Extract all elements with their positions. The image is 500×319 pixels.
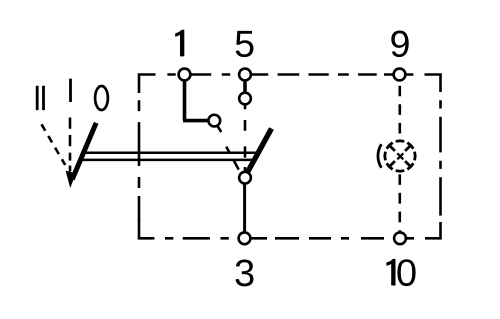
terminal 9 <box>394 69 406 81</box>
lamp L1 (illumination) <box>378 141 415 171</box>
enclosure bottom border (dash-dot) <box>139 220 441 238</box>
terminal 10 <box>394 232 406 244</box>
wire from pivot to terminal 3 <box>243 183 246 233</box>
pin label 3 <box>236 260 254 287</box>
dashed contact path (pos I) from contact 5 to pivot <box>244 104 247 172</box>
wire from terminal 1 to contact <box>183 77 210 121</box>
moving contact lever <box>247 129 272 174</box>
terminal 5 <box>239 69 251 81</box>
pin label 9 <box>391 31 408 58</box>
position I dashed lever line <box>69 118 72 172</box>
pin label 1 <box>175 30 184 57</box>
terminal 3 <box>239 232 251 244</box>
enclosure right border (dash-dot) <box>439 100 442 215</box>
wire stub from terminal 5 <box>243 77 247 93</box>
dashed contact path (pos II) from contact 1 to pivot <box>217 125 239 170</box>
position II dashed lever line <box>42 124 66 165</box>
position label 0 <box>95 86 108 110</box>
contact circle at terminal 1 branch <box>208 115 220 127</box>
mechanical linkage upper line <box>83 152 256 155</box>
dashed wire lamp to terminal 10 <box>398 174 401 233</box>
position label II <box>37 86 43 110</box>
position label I <box>69 79 72 102</box>
mechanical linkage lower line <box>80 159 253 162</box>
pin label 10 zero <box>397 259 415 286</box>
pivot contact circle <box>239 172 251 184</box>
contact circle at terminal 5 branch <box>239 93 251 105</box>
pin label 10 <box>386 259 395 286</box>
enclosure top border (dashed) <box>139 75 441 94</box>
enclosure left border (dash-dot) <box>138 100 141 221</box>
terminal 1 <box>179 69 191 81</box>
pin label 5 <box>236 31 254 57</box>
dashed wire terminal 9 to lamp <box>398 86 401 136</box>
actuator lever (position 0) with arrow tip <box>72 123 96 180</box>
